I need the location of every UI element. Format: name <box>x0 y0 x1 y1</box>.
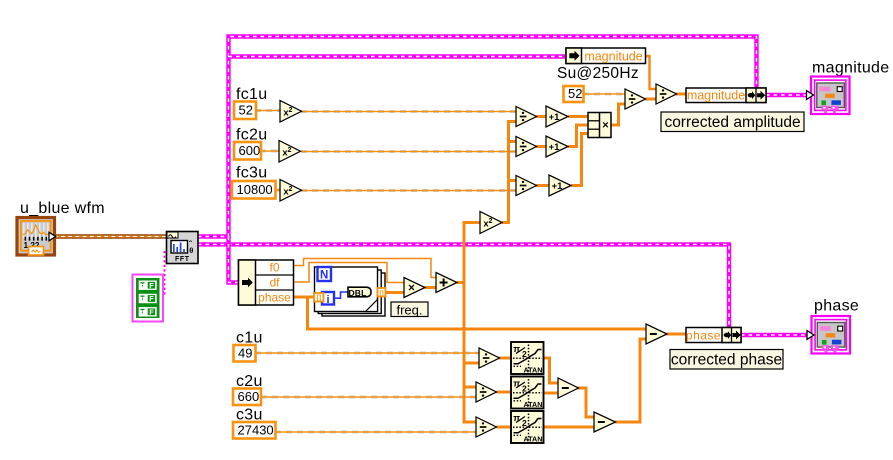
to-DBL conversion node <box>348 287 371 298</box>
svg-text:magnitude: magnitude <box>687 89 745 103</box>
wire fc3u constant to x^2 C <box>275 189 280 192</box>
wire phase out to loop tunnel and down <box>294 296 316 299</box>
svg-text:52: 52 <box>239 102 253 117</box>
wire divide P1 out to ATAN1 <box>499 357 513 360</box>
multiply node df <box>404 278 425 298</box>
unbundle by name magnitude node <box>566 48 646 64</box>
waveform control u_blue wfm <box>17 218 56 256</box>
constant Su@250Hz 52 <box>564 86 584 102</box>
multiply compound node <box>588 113 611 138</box>
svg-text:F: F <box>149 307 154 316</box>
wire branch to divide P1 bottom input <box>464 362 479 365</box>
wire divide P3 out to ATAN3 <box>497 426 513 429</box>
increment +1 node A <box>546 106 568 127</box>
wire branch to divide P2 top input <box>464 386 476 389</box>
svg-text:F: F <box>149 281 154 290</box>
wire +1 B out to multiply compound row2 <box>568 125 588 147</box>
svg-text:corrected amplitude: corrected amplitude <box>664 114 800 131</box>
FFT VI <box>167 232 199 264</box>
label fc2u <box>236 127 267 144</box>
bundle by name phase node <box>686 328 741 343</box>
svg-text:2: 2 <box>522 418 527 428</box>
wire bundle magnitude output to magnitude indicator <box>766 93 807 97</box>
svg-text:DBL: DBL <box>348 288 366 298</box>
wire Su@250Hz constant 52 to divide D top input <box>583 93 625 96</box>
label u_blue wfm <box>20 200 105 217</box>
svg-text:phase: phase <box>686 328 721 342</box>
wire FFT second output across to bundle phase node <box>198 244 729 328</box>
svg-text:θ: θ <box>189 246 193 255</box>
increment +1 node B <box>546 136 568 157</box>
svg-text:i: i <box>326 294 329 306</box>
ATAN block 2 <box>511 377 544 410</box>
wire freq array vertical to x^2 mid and divides P <box>464 223 480 423</box>
for loop frame stacked <box>315 267 386 316</box>
wire fc2u constant to x^2 B <box>260 150 279 153</box>
subtract node 2 <box>594 412 616 432</box>
wire FFT cluster output up and across top to bundle magnitude, branches <box>198 37 757 237</box>
svg-text:2: 2 <box>489 218 493 225</box>
wire ATAN3 out to subtract2 bottom input <box>544 426 595 429</box>
label fc1u <box>236 86 267 103</box>
wire f0 to add node top input <box>294 259 437 278</box>
cluster indicator phase <box>807 316 850 354</box>
svg-text:F: F <box>149 294 154 303</box>
wire c2u constant to divide P2 bottom input <box>261 396 476 399</box>
wire phase branch down long to subtract 3 top input <box>308 297 647 329</box>
svg-text:magnitude: magnitude <box>812 60 889 77</box>
svg-text:2: 2 <box>522 349 527 359</box>
svg-text:+1: +1 <box>549 112 561 123</box>
wire x^2 mid output up to divide A/B/C denominator inputs <box>502 122 516 223</box>
label freq. <box>391 302 428 317</box>
wire divide A out to +1 A <box>536 115 546 118</box>
wire subtract3 out to bundle phase node <box>667 333 687 336</box>
divide node P2 <box>476 382 497 402</box>
svg-text:corrected phase: corrected phase <box>671 351 782 368</box>
label corrected amplitude <box>661 112 804 132</box>
divide node E <box>656 84 677 104</box>
svg-text:Su@250Hz: Su@250Hz <box>557 65 639 82</box>
wire +1 A out to multiply compound row1 <box>568 115 588 118</box>
constant fc1u 52 <box>234 102 256 120</box>
svg-text:fc3u: fc3u <box>236 165 267 182</box>
wire multiply compound out to divide D bottom input <box>611 104 625 125</box>
wire add out / freq array vertical <box>457 281 465 284</box>
svg-text:600: 600 <box>239 143 261 158</box>
wire branch to unbundle magnitude node <box>229 54 567 58</box>
loop output tunnel <box>378 288 386 297</box>
wire unbundle magnitude out down to divide E top input <box>646 56 657 89</box>
wire +1 C out to multiply compound row3 <box>571 134 588 186</box>
label c1u <box>236 330 263 347</box>
increment +1 node C <box>549 175 571 196</box>
svg-text:10800: 10800 <box>237 182 273 197</box>
svg-text:df: df <box>269 276 280 290</box>
label c3u <box>236 407 263 424</box>
add node f0 <box>436 273 457 293</box>
wire x^2 C output to divide C bottom input <box>301 189 516 192</box>
loop count N terminal <box>318 267 332 282</box>
svg-text:magnitude: magnitude <box>584 50 642 64</box>
constant c2u 660 <box>233 389 261 406</box>
svg-text:ATAN: ATAN <box>524 366 543 375</box>
wire x^2 B output to divide B bottom input <box>301 150 516 153</box>
divide node P1 <box>479 348 500 368</box>
wire df to multiply node top input <box>294 263 405 283</box>
boolean cluster constant <box>133 275 164 322</box>
wire boolean cluster to FFT input <box>164 251 166 297</box>
bundle by name magnitude node <box>686 88 766 103</box>
svg-text:2: 2 <box>289 107 293 114</box>
label c2u <box>236 373 263 390</box>
svg-text:[]: [] <box>316 295 321 302</box>
svg-text:2: 2 <box>522 384 527 394</box>
wire fc1u constant to x^2 A <box>255 109 280 112</box>
svg-text:[]: [] <box>379 290 383 297</box>
wire i to DBL blue <box>334 292 348 298</box>
svg-text:2: 2 <box>288 147 292 154</box>
svg-text:×: × <box>602 120 608 132</box>
svg-text:ATAN: ATAN <box>524 435 543 444</box>
label magnitude indicator <box>812 60 889 77</box>
constant c3u 27430 <box>233 422 276 439</box>
label Su@250Hz <box>557 65 639 82</box>
wire c1u constant to divide P1 top input <box>255 352 479 355</box>
wire waveform control to FFT <box>54 234 167 238</box>
ATAN block 3 <box>511 411 544 444</box>
wire ATAN1 out to subtract1 top input <box>544 358 559 383</box>
wire c3u constant to divide P3 bottom input <box>275 431 476 434</box>
wire multiply node out to add node bottom input <box>425 286 437 289</box>
wire divide C out to +1 C <box>536 184 549 187</box>
svg-text:+1: +1 <box>549 142 561 153</box>
wire bundle phase output to phase indicator <box>741 333 808 337</box>
unbundle by name f0 df phase node <box>239 260 294 305</box>
wire divide B out to +1 B <box>536 145 546 148</box>
wire divide E out to bundle magnitude node <box>676 93 687 96</box>
divide node C <box>516 176 537 196</box>
wire divide D out to divide E bottom input <box>645 98 656 101</box>
x^2 node A <box>280 101 302 123</box>
divide node B <box>516 137 537 157</box>
svg-text:660: 660 <box>238 389 260 404</box>
x^2 node mid <box>480 212 502 234</box>
divide node D <box>625 89 646 109</box>
wire branch down to unbundle f0 df phase node <box>229 237 239 283</box>
svg-text:N: N <box>320 270 328 282</box>
divide node A <box>516 107 537 127</box>
constant fc3u 10800 <box>232 181 276 199</box>
constant fc2u 600 <box>234 142 261 160</box>
wire branch to divide C top input <box>509 179 517 182</box>
constant c1u 49 <box>234 345 256 362</box>
subtract node 3 <box>646 324 667 344</box>
svg-text:+1: +1 <box>552 181 564 192</box>
x^2 node C <box>280 180 302 202</box>
divide node P3 <box>476 417 497 437</box>
svg-text:ATAN: ATAN <box>524 400 543 409</box>
ATAN block 1 <box>511 342 544 375</box>
loop iteration i terminal <box>322 292 334 306</box>
wire DBL to loop output tunnel <box>371 291 378 294</box>
label corrected phase <box>670 350 783 370</box>
loop input tunnel <box>314 293 324 302</box>
svg-text:27430: 27430 <box>238 422 274 437</box>
wire x^2 A output to divide A top input <box>301 110 516 113</box>
wire subtract2 out to subtract3 bottom input <box>615 339 646 422</box>
x^2 node B <box>279 141 301 163</box>
svg-text:u_blue wfm: u_blue wfm <box>20 200 105 217</box>
wire subtract1 out to subtract2 top input <box>578 388 595 417</box>
svg-text:49: 49 <box>238 345 252 360</box>
svg-text:FFT: FFT <box>175 256 190 263</box>
svg-text:phase: phase <box>258 291 291 305</box>
label fc3u <box>236 165 267 182</box>
wire branch to divide B top input <box>509 140 517 143</box>
svg-text:freq.: freq. <box>396 302 422 317</box>
label phase indicator <box>814 298 859 315</box>
svg-text:2: 2 <box>289 186 293 193</box>
svg-text:52: 52 <box>568 86 582 101</box>
wire divide P2 out to ATAN2 <box>497 391 513 394</box>
svg-text:f0: f0 <box>269 261 279 275</box>
cluster indicator magnitude <box>807 77 850 115</box>
subtract node 1 <box>558 378 579 398</box>
wire ATAN2 out to subtract1 bottom input <box>544 392 559 395</box>
svg-text:phase: phase <box>814 298 859 315</box>
svg-text:×: × <box>408 282 415 294</box>
wire loop tunnel out to multiply node bottom input <box>384 291 404 294</box>
